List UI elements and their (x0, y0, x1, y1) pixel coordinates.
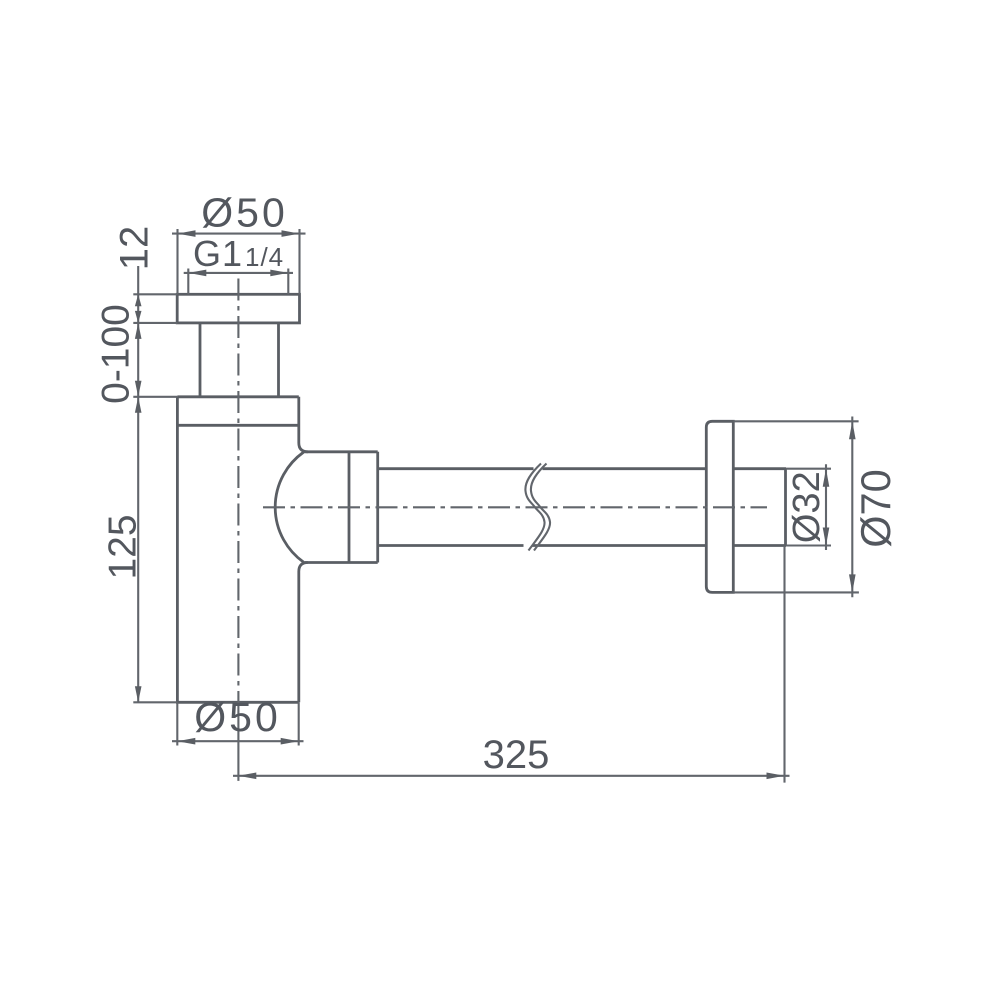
svg-text:1/4: 1/4 (245, 242, 284, 272)
dim G1 1/4: arrows (188, 270, 206, 277)
top drain flange (177, 294, 299, 323)
left chain dims: dimension line (137, 266, 139, 702)
dim 0-100: arrows (135, 323, 142, 339)
wall flange (706, 420, 733, 594)
outlet dome (275, 452, 303, 562)
dim G1 1/4: dimension line (184, 272, 293, 274)
outlet pipe bottom edge (378, 544, 786, 547)
dim 325: right extension line (783, 546, 785, 783)
left chain dims: extension lines (133, 294, 177, 702)
dim diameter 32: arrows (823, 469, 830, 487)
svg-text:125: 125 (102, 514, 145, 579)
dim diameter 32: extension lines (786, 469, 831, 546)
svg-text:12: 12 (113, 226, 157, 271)
dim bottom diameter 50: extension lines (177, 702, 298, 745)
threaded tube (200, 323, 279, 397)
dim diameter 70: extension lines (733, 421, 859, 592)
svg-text:G1: G1 (193, 233, 243, 274)
svg-text:Ø50: Ø50 (201, 189, 288, 235)
dim top diameter 50: dimension line (172, 233, 306, 235)
vertical centerline (237, 279, 239, 703)
dim diameter 32: dimension line (825, 464, 827, 550)
trap body (177, 397, 307, 703)
svg-text:Ø50: Ø50 (194, 694, 281, 740)
dim bottom diameter 50: arrows (177, 738, 195, 745)
pipe end (784, 469, 787, 546)
outlet nut line 1 (348, 452, 351, 563)
dim diameter 70: arrows (849, 421, 856, 439)
outlet nut line 2 (376, 452, 379, 563)
svg-text:0-100: 0-100 (95, 304, 138, 404)
dim 12: arrows (135, 294, 142, 306)
vertical centerline extension to 325 dim (237, 702, 239, 781)
dim 325: dimension line (233, 775, 790, 777)
dim diameter 70: dimension line (851, 417, 853, 598)
outlet bottom edge (304, 561, 378, 564)
dim 125: arrows (135, 397, 142, 413)
svg-text:Ø70: Ø70 (852, 469, 899, 547)
body collar line (177, 424, 298, 427)
horizontal centerline (263, 506, 767, 508)
pipe break symbol (525, 464, 544, 551)
outlet top edge (304, 450, 378, 453)
dim top diameter 50: arrows (178, 230, 196, 237)
svg-text:325: 325 (483, 733, 550, 777)
dim top diameter 50: extension lines (178, 229, 300, 294)
dim 325: arrows (238, 773, 256, 780)
svg-text:Ø32: Ø32 (786, 471, 828, 543)
dim bottom diameter 50: dimension line (172, 740, 304, 742)
outlet pipe top edge (378, 467, 786, 470)
dim G1 1/4: extension lines (188, 269, 288, 295)
